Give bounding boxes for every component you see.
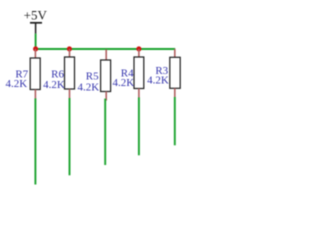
resistor R5 body: [101, 60, 111, 92]
wire +5V bus horizontal: [35, 48, 176, 50]
resistor R6 body: [65, 57, 75, 89]
wire from R3 down: [174, 97, 176, 145]
resistor R7 pin 2: [34, 90, 36, 99]
resistor R7 pin 1: [34, 49, 36, 58]
resistor R4 body: [134, 57, 144, 89]
svg-text:4.2K: 4.2K: [112, 77, 134, 89]
svg-text:4.2K: 4.2K: [77, 82, 99, 94]
svg-text:4.2K: 4.2K: [5, 78, 27, 90]
resistor R3 pin 1: [174, 49, 176, 58]
power port bar: [30, 22, 42, 24]
resistor R3 pin 2: [174, 88, 176, 97]
svg-text:+5V: +5V: [24, 8, 48, 23]
resistor R6 pin 1: [69, 49, 71, 57]
svg-text:4.2K: 4.2K: [43, 79, 65, 91]
svg-text:4.2K: 4.2K: [147, 75, 169, 87]
wire from R6 down: [69, 98, 71, 175]
wire from R5 down: [104, 99, 106, 165]
resistor R3 body: [170, 57, 180, 88]
svg-text:R5: R5: [86, 70, 99, 82]
junction dot node R7: [33, 46, 38, 51]
resistor R5 pin 1: [105, 49, 107, 60]
resistor R7 body: [30, 58, 40, 90]
resistor R6 pin 2: [69, 89, 71, 98]
power port stem: [35, 23, 37, 34]
junction dot node R6: [67, 46, 72, 51]
wire from R7 down: [34, 98, 36, 184]
resistor R4 pin 2: [138, 89, 140, 98]
junction dot node R4: [136, 46, 141, 51]
resistor R5 pin 2: [105, 92, 107, 101]
wire from R4 down: [138, 97, 140, 155]
resistor R4 pin 1: [138, 49, 140, 57]
wire +5V stem to bus: [35, 34, 37, 48]
